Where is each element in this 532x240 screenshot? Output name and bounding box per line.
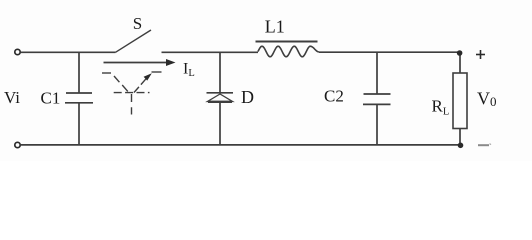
svg-text:IL: IL xyxy=(183,61,195,80)
svg-text:RL: RL xyxy=(432,97,450,118)
svg-text:Vi: Vi xyxy=(4,88,20,107)
svg-text:V0: V0 xyxy=(477,89,497,110)
svg-text:L1: L1 xyxy=(265,17,285,37)
svg-text:C2: C2 xyxy=(324,87,344,106)
svg-text:D: D xyxy=(241,87,254,107)
svg-text:S: S xyxy=(133,14,142,33)
svg-text:C1: C1 xyxy=(41,89,61,108)
